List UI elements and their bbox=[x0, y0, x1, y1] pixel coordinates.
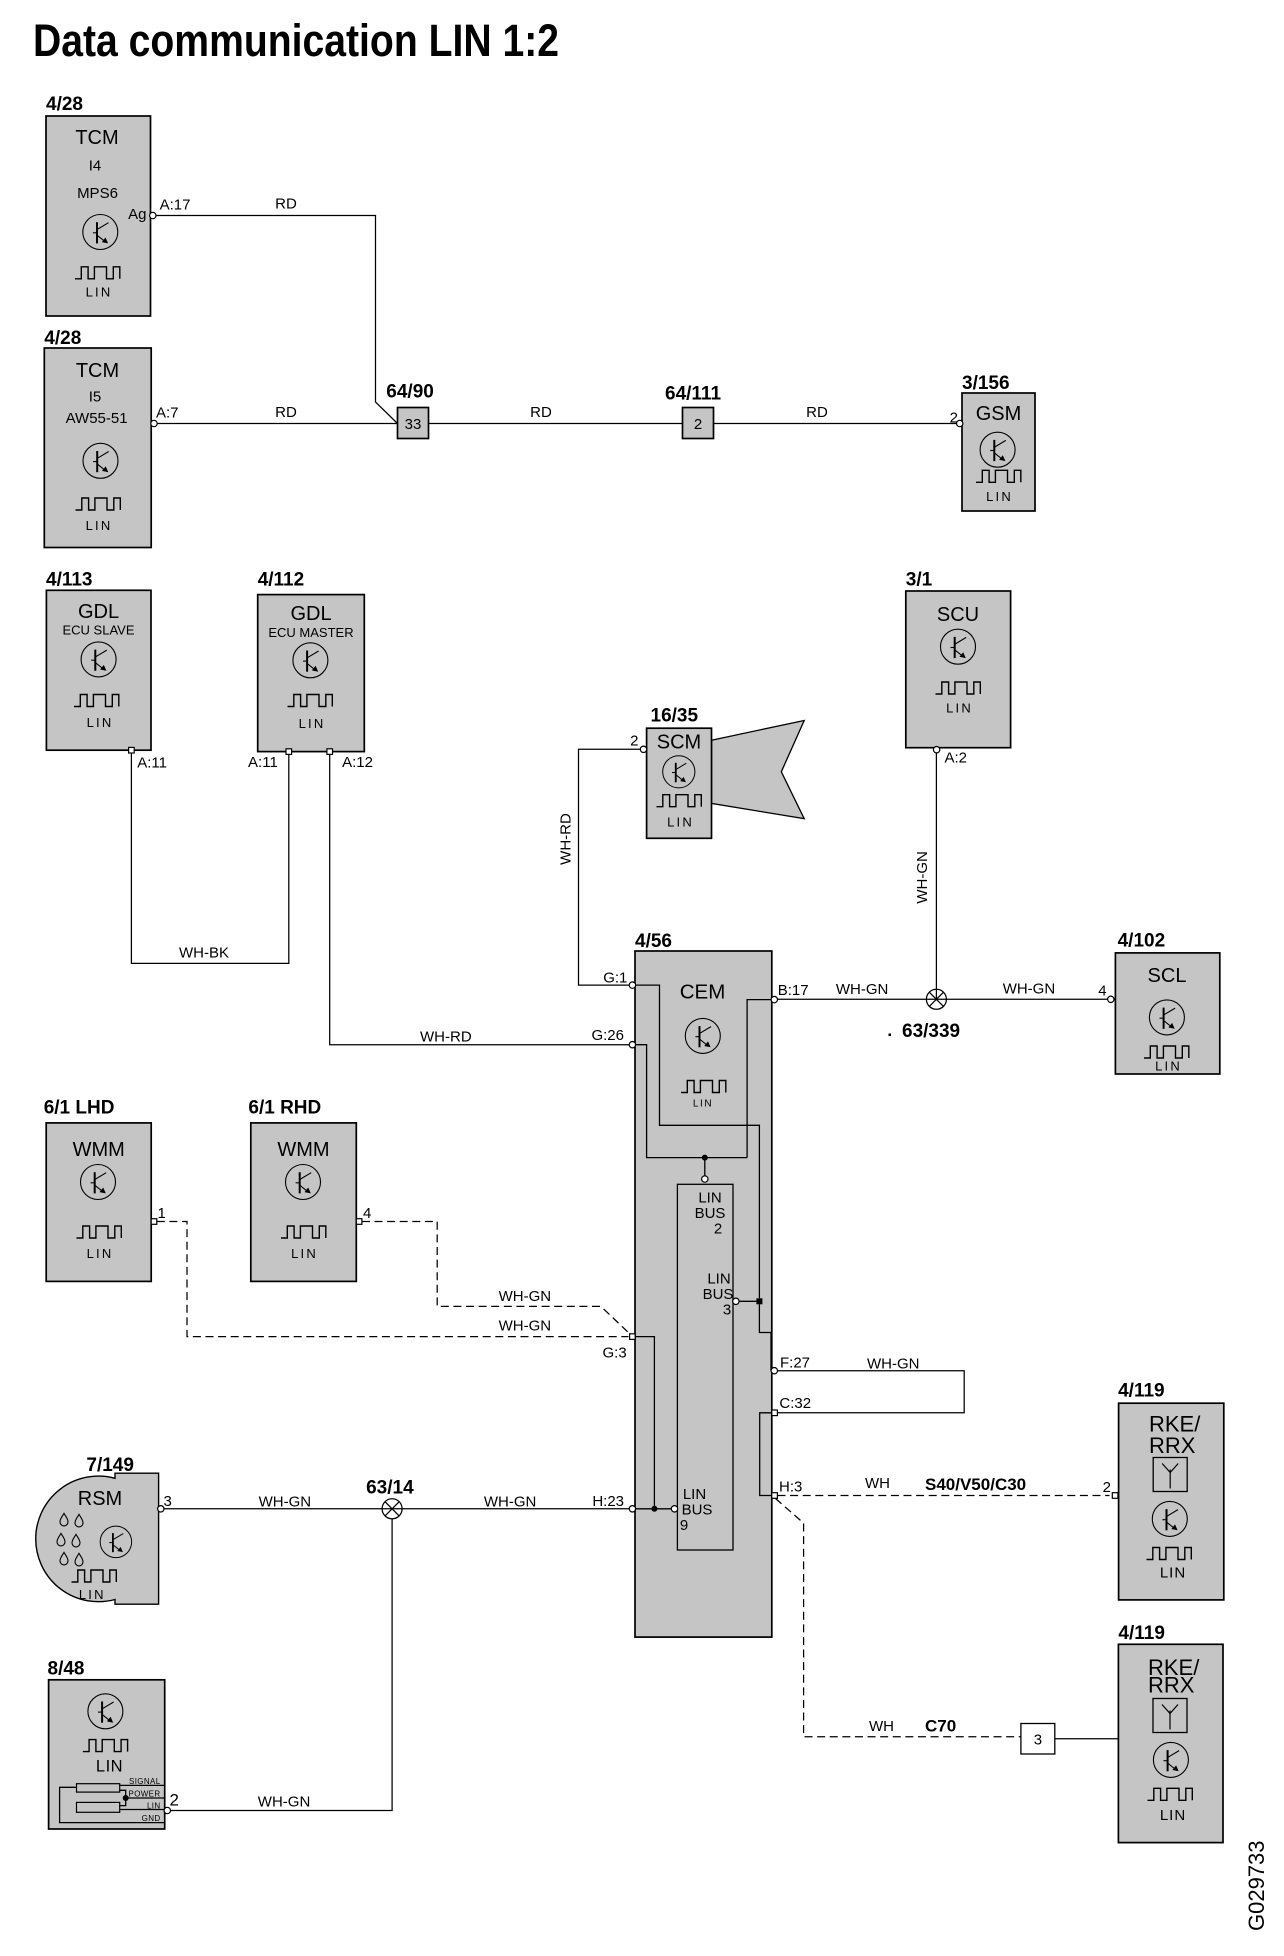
ECU TCM I4 box bbox=[46, 116, 151, 316]
svg-text:64/90: 64/90 bbox=[386, 382, 434, 403]
ECU GDL ECU SLAVE box bbox=[46, 590, 151, 750]
wire WH dashed CEM H:3 to RKE/RRX upper bbox=[778, 1495, 1110, 1497]
svg-text:TCM: TCM bbox=[76, 360, 119, 382]
connector detail 8/48: LIN line bbox=[120, 1809, 165, 1811]
LIN wave symbol TCM I5 bbox=[76, 498, 121, 510]
svg-text:G029733: G029733 bbox=[1244, 1840, 1269, 1931]
node LIN BUS 9 bbox=[680, 1486, 713, 1534]
LIN wave symbol GDL master bbox=[288, 695, 333, 707]
LIN wave symbol CEM bbox=[681, 1081, 726, 1093]
svg-text:BUS: BUS bbox=[695, 1205, 726, 1222]
wire WH dashed CEM H:3 branch to C70 bbox=[776, 1499, 1021, 1737]
svg-text:4/119: 4/119 bbox=[1118, 1381, 1165, 1402]
ECU SCL box bbox=[1115, 953, 1219, 1074]
svg-text:AW55-51: AW55-51 bbox=[66, 410, 128, 427]
svg-text:WH: WH bbox=[865, 1475, 890, 1492]
transistor symbol SCL bbox=[1149, 1000, 1184, 1035]
pin 4 WMM RHD bbox=[356, 1219, 362, 1225]
svg-text:G:26: G:26 bbox=[591, 1027, 624, 1044]
svg-text:SIGNAL: SIGNAL bbox=[129, 1777, 161, 1786]
wire WH-GN SCU A:2 to junction 63/339 bbox=[935, 753, 937, 999]
svg-text:LIN: LIN bbox=[86, 285, 113, 300]
svg-text:WMM: WMM bbox=[73, 1139, 125, 1161]
svg-text:RD: RD bbox=[275, 196, 297, 213]
svg-text:Data communication LIN 1:2: Data communication LIN 1:2 bbox=[33, 15, 559, 66]
svg-text:4/56: 4/56 bbox=[635, 931, 672, 952]
svg-text:6/1 RHD: 6/1 RHD bbox=[248, 1098, 321, 1119]
wire internal G:3 to H:23 net bbox=[635, 1337, 654, 1509]
pin 1 WMM LHD bbox=[151, 1219, 157, 1225]
transistor symbol SCM bbox=[663, 756, 695, 788]
svg-text:A:11: A:11 bbox=[248, 754, 278, 771]
svg-text:C:32: C:32 bbox=[779, 1395, 811, 1412]
pin A:2 SCU bbox=[933, 747, 939, 753]
LIN wave symbol RKE lower bbox=[1148, 1788, 1193, 1800]
svg-text:LIN: LIN bbox=[1160, 1807, 1186, 1824]
LIN wave symbol WMM RHD bbox=[281, 1226, 326, 1238]
transistor symbol GSM bbox=[980, 432, 1015, 467]
LIN wave symbol 8/48 bbox=[83, 1740, 128, 1752]
svg-text:3/1: 3/1 bbox=[906, 570, 933, 591]
svg-text:WH-GN: WH-GN bbox=[836, 981, 889, 998]
ECU GDL ECU MASTER box bbox=[258, 595, 365, 752]
svg-text:LIN: LIN bbox=[96, 1758, 123, 1776]
svg-text:64/111: 64/111 bbox=[665, 384, 721, 405]
svg-text:G:3: G:3 bbox=[603, 1345, 627, 1362]
svg-text:SCM: SCM bbox=[657, 732, 701, 754]
pin B:17 bbox=[771, 996, 777, 1002]
svg-text:GND: GND bbox=[142, 1814, 161, 1823]
pin A:11 GDL slave bbox=[129, 747, 135, 753]
wire WH-BK GDL slave A:11 to GDL master A:11 bbox=[131, 753, 288, 963]
svg-text:3: 3 bbox=[723, 1302, 731, 1319]
connector detail 8/48: SIGNAL line bbox=[120, 1784, 165, 1786]
wire WH-GN CEM B:17 to SCL pin 4 bbox=[775, 998, 1108, 1000]
svg-text:A:7: A:7 bbox=[156, 405, 179, 422]
junction 63/339 bbox=[926, 989, 946, 1009]
pin 4 SCL bbox=[1108, 996, 1114, 1002]
svg-text:LIN: LIN bbox=[698, 1190, 721, 1207]
ECU RKE/RRX lower box bbox=[1118, 1644, 1223, 1842]
svg-text:2: 2 bbox=[630, 733, 638, 750]
svg-text:WH-GN: WH-GN bbox=[258, 1794, 311, 1811]
svg-text:BUS: BUS bbox=[703, 1286, 734, 1303]
svg-text:4: 4 bbox=[1098, 982, 1106, 999]
svg-text:4/113: 4/113 bbox=[46, 570, 93, 591]
wire CEM internal G:26 to LIN BUS 2 bbox=[635, 1045, 747, 1158]
antenna symbol RKE upper bbox=[1153, 1458, 1187, 1492]
wire to LIN BUS 2 pin bbox=[704, 1158, 706, 1176]
svg-text:LIN: LIN bbox=[87, 1246, 114, 1261]
svg-text:LIN: LIN bbox=[299, 716, 326, 731]
svg-text:A:11: A:11 bbox=[137, 755, 167, 772]
ECU RSM body bbox=[36, 1473, 159, 1604]
svg-text:WMM: WMM bbox=[277, 1139, 329, 1161]
svg-text:RRX: RRX bbox=[1149, 1433, 1196, 1458]
antenna symbol RKE lower bbox=[1153, 1699, 1187, 1733]
svg-text:RD: RD bbox=[530, 404, 552, 421]
svg-text:RD: RD bbox=[806, 404, 828, 421]
transistor symbol TCM I4 bbox=[83, 215, 118, 250]
wire RD from TCM I5 A:7 to 64/90 bbox=[156, 423, 398, 425]
LIN wave symbol RKE upper bbox=[1147, 1548, 1192, 1560]
svg-text:4/102: 4/102 bbox=[1118, 931, 1166, 952]
ECU SCU box bbox=[906, 591, 1011, 748]
svg-text:WH-RD: WH-RD bbox=[420, 1029, 472, 1046]
junction dot CEM internal bbox=[702, 1155, 708, 1161]
svg-text:WH-GN: WH-GN bbox=[867, 1356, 920, 1373]
svg-text:WH-GN: WH-GN bbox=[499, 1288, 551, 1305]
wire WH-RD GDL master A:12 to CEM G:26 bbox=[330, 754, 630, 1044]
svg-text:ECU SLAVE: ECU SLAVE bbox=[62, 623, 134, 638]
svg-text:63/339: 63/339 bbox=[902, 1021, 960, 1042]
wire WH-RD SCM to CEM G:1 bbox=[579, 749, 642, 985]
wire WH-GN loop F:27 to C:32 bbox=[777, 1371, 964, 1413]
pin 2 8/48 bbox=[164, 1807, 170, 1813]
svg-text:LIN: LIN bbox=[291, 1246, 318, 1261]
svg-text:1: 1 bbox=[158, 1205, 166, 1222]
svg-text:WH-GN: WH-GN bbox=[914, 851, 931, 904]
transistor symbol RKE upper bbox=[1152, 1501, 1187, 1536]
svg-text:WH-BK: WH-BK bbox=[179, 945, 229, 962]
pin F:27 bbox=[771, 1368, 777, 1374]
LIN wave symbol TCM I4 bbox=[75, 267, 120, 279]
pin A:12 GDL master bbox=[327, 749, 333, 755]
wire internal H:23 to LIN BUS 9 bbox=[635, 1508, 671, 1510]
svg-text:I5: I5 bbox=[89, 388, 102, 405]
svg-text:BUS: BUS bbox=[682, 1502, 713, 1519]
transistor symbol WMM LHD bbox=[81, 1165, 116, 1200]
wire RD from TCM I4 A:17 to 64/90 bbox=[153, 216, 398, 424]
svg-text:4: 4 bbox=[363, 1205, 371, 1222]
transistor symbol 8/48 bbox=[88, 1694, 123, 1729]
transistor symbol RSM bbox=[100, 1526, 132, 1558]
svg-text:3: 3 bbox=[1034, 1732, 1042, 1749]
LIN wave symbol SCM bbox=[657, 795, 702, 807]
LIN wave symbol RSM bbox=[72, 1570, 117, 1582]
wire WH-GN WMM LHD to CEM G:3 bbox=[157, 1222, 629, 1337]
svg-text:LIN: LIN bbox=[693, 1099, 713, 1110]
svg-text:8/48: 8/48 bbox=[48, 1659, 85, 1680]
LIN wave symbol WMM LHD bbox=[77, 1226, 122, 1238]
pin A:11 GDL master bbox=[286, 749, 292, 755]
transistor symbol GDL slave bbox=[81, 642, 116, 677]
ECU WMM LHD box bbox=[46, 1123, 151, 1282]
svg-text:WH-RD: WH-RD bbox=[558, 813, 575, 865]
wire internal LIN BUS 3 to F:27 bbox=[759, 1304, 771, 1370]
svg-text:WH-GN: WH-GN bbox=[259, 1493, 312, 1510]
svg-text:A:17: A:17 bbox=[160, 197, 191, 214]
svg-text:MPS6: MPS6 bbox=[77, 185, 118, 202]
svg-text:H:3: H:3 bbox=[779, 1479, 802, 1496]
wire CEM internal B:17 leg bbox=[747, 1000, 772, 1158]
svg-text:SCU: SCU bbox=[937, 604, 979, 626]
svg-text:S40/V50/C30: S40/V50/C30 bbox=[925, 1475, 1026, 1494]
svg-text:WH-GN: WH-GN bbox=[499, 1317, 551, 1334]
wire 63/14 down to 8/48 bbox=[170, 1519, 392, 1811]
svg-text:LIN: LIN bbox=[79, 1587, 106, 1602]
svg-text:Ag: Ag bbox=[128, 206, 146, 223]
connector 64/111 box pin 2 bbox=[683, 408, 714, 439]
svg-text:9: 9 bbox=[680, 1517, 688, 1534]
svg-text:RD: RD bbox=[275, 404, 297, 421]
pin 2 RKE upper bbox=[1112, 1493, 1118, 1499]
svg-text:LIN: LIN bbox=[147, 1801, 161, 1810]
ECU SCM box bbox=[647, 728, 712, 838]
pin G:26 bbox=[629, 1042, 635, 1048]
wire WH-GN RSM to junction 63/14 to CEM H:23 bbox=[164, 1508, 629, 1510]
svg-text:3/156: 3/156 bbox=[962, 373, 1010, 394]
svg-text:LIN: LIN bbox=[86, 518, 113, 533]
ECU WMM RHD box bbox=[251, 1123, 356, 1282]
svg-text:4/28: 4/28 bbox=[44, 328, 81, 349]
svg-text:C70: C70 bbox=[925, 1717, 956, 1736]
transistor symbol WMM RHD bbox=[286, 1165, 321, 1200]
svg-text:CEM: CEM bbox=[680, 981, 726, 1004]
svg-text:A:12: A:12 bbox=[342, 754, 373, 771]
node LIN BUS 2 bbox=[695, 1190, 726, 1238]
transistor symbol CEM bbox=[685, 1018, 720, 1053]
connector 64/90 box pin 33 bbox=[398, 408, 429, 439]
svg-text:ECU MASTER: ECU MASTER bbox=[268, 625, 353, 640]
transistor symbol GDL master bbox=[293, 643, 328, 678]
svg-text:4/119: 4/119 bbox=[1118, 1623, 1165, 1644]
svg-text:TCM: TCM bbox=[75, 127, 118, 149]
ECU CEM box bbox=[635, 951, 772, 1637]
connector detail 8/48: left bracket bbox=[60, 1787, 165, 1822]
ECU 8/48 box bbox=[49, 1680, 165, 1829]
svg-text:B:17: B:17 bbox=[778, 982, 809, 999]
svg-text:LIN: LIN bbox=[87, 715, 114, 730]
transistor symbol RKE lower bbox=[1153, 1742, 1188, 1777]
pin H:3 bbox=[772, 1493, 778, 1499]
svg-text:2: 2 bbox=[1103, 1479, 1111, 1496]
svg-text:WH: WH bbox=[869, 1718, 894, 1735]
LIN wave symbol GDL slave bbox=[74, 695, 119, 707]
wire RD 64/111 to GSM bbox=[714, 423, 957, 425]
svg-text:LIN: LIN bbox=[707, 1271, 730, 1288]
LIN wave symbol SCL bbox=[1144, 1046, 1189, 1058]
svg-text:LIN: LIN bbox=[946, 701, 973, 716]
svg-text:3: 3 bbox=[164, 1493, 172, 1510]
svg-text:LIN: LIN bbox=[986, 489, 1013, 504]
transistor symbol SCU bbox=[941, 629, 976, 664]
pin LIN BUS 3 bbox=[733, 1298, 739, 1304]
LIN wave symbol SCU bbox=[936, 682, 981, 694]
connector detail 8/48: POWER link and dot bbox=[120, 1790, 126, 1805]
svg-text:63/14: 63/14 bbox=[366, 1478, 414, 1499]
svg-text:6/1 LHD: 6/1 LHD bbox=[44, 1098, 115, 1119]
svg-text:4/112: 4/112 bbox=[258, 570, 305, 591]
wire RD 64/90 to 64/111 bbox=[429, 423, 683, 425]
pin G:1 bbox=[629, 982, 635, 988]
svg-text:SCL: SCL bbox=[1148, 965, 1187, 987]
svg-text:GDL: GDL bbox=[78, 601, 119, 623]
transistor symbol TCM I5 bbox=[83, 443, 118, 478]
wire internal C:32 to H:3 bbox=[760, 1413, 772, 1496]
svg-text:I4: I4 bbox=[89, 158, 102, 175]
svg-text:2: 2 bbox=[170, 1791, 179, 1810]
svg-text:GDL: GDL bbox=[290, 603, 331, 625]
svg-text:WH-GN: WH-GN bbox=[1003, 981, 1055, 998]
wire WH-GN WMM RHD to CEM G:3 bbox=[362, 1222, 631, 1335]
LIN wave symbol GSM bbox=[976, 470, 1021, 482]
rain drops RSM bbox=[60, 1513, 68, 1526]
wire CEM internal G:1 to LIN BUS 3 bbox=[635, 985, 759, 1298]
svg-text:RRX: RRX bbox=[1148, 1673, 1195, 1698]
junction 63/14 bbox=[382, 1499, 402, 1519]
inner box LIN BUS bbox=[677, 1184, 733, 1550]
wire C70 box to RKE lower bbox=[1055, 1738, 1119, 1740]
node LIN BUS 3 bbox=[703, 1271, 734, 1319]
svg-text:A:2: A:2 bbox=[945, 750, 968, 767]
svg-text:LIN: LIN bbox=[1160, 1565, 1186, 1582]
pin H:23 bbox=[629, 1506, 635, 1512]
junction square LIN BUS 3 bbox=[756, 1298, 762, 1304]
svg-text:LIN: LIN bbox=[683, 1486, 706, 1503]
svg-text:GSM: GSM bbox=[976, 403, 1022, 425]
svg-text:2: 2 bbox=[714, 1221, 722, 1238]
svg-text:POWER: POWER bbox=[129, 1790, 161, 1799]
pin 3 RSM bbox=[158, 1506, 164, 1512]
pin C:32 bbox=[772, 1410, 778, 1416]
svg-text:LIN: LIN bbox=[1155, 1059, 1182, 1074]
svg-text:G:1: G:1 bbox=[603, 970, 627, 987]
svg-text:WH-GN: WH-GN bbox=[484, 1494, 537, 1511]
svg-text:LIN: LIN bbox=[667, 814, 694, 829]
svg-text:RSM: RSM bbox=[78, 1488, 122, 1510]
svg-text:F:27: F:27 bbox=[780, 1355, 810, 1372]
connector C70 box pin 3 bbox=[1021, 1724, 1055, 1755]
svg-text:H:23: H:23 bbox=[592, 1493, 624, 1510]
svg-text:16/35: 16/35 bbox=[651, 706, 699, 727]
ECU TCM I5 box bbox=[44, 348, 151, 548]
pin G:3 bbox=[630, 1334, 636, 1340]
svg-text:33: 33 bbox=[405, 416, 422, 433]
svg-text:4/28: 4/28 bbox=[46, 94, 83, 115]
seat flag symbol SCM bbox=[712, 721, 805, 819]
connector detail 8/48: terminal rect SIGNAL bbox=[77, 1784, 120, 1792]
svg-text:2: 2 bbox=[694, 416, 702, 433]
ECU GSM box bbox=[962, 393, 1035, 511]
connector detail 8/48: terminal rect LIN bbox=[77, 1802, 120, 1812]
ECU RKE/RRX upper box bbox=[1119, 1403, 1224, 1600]
